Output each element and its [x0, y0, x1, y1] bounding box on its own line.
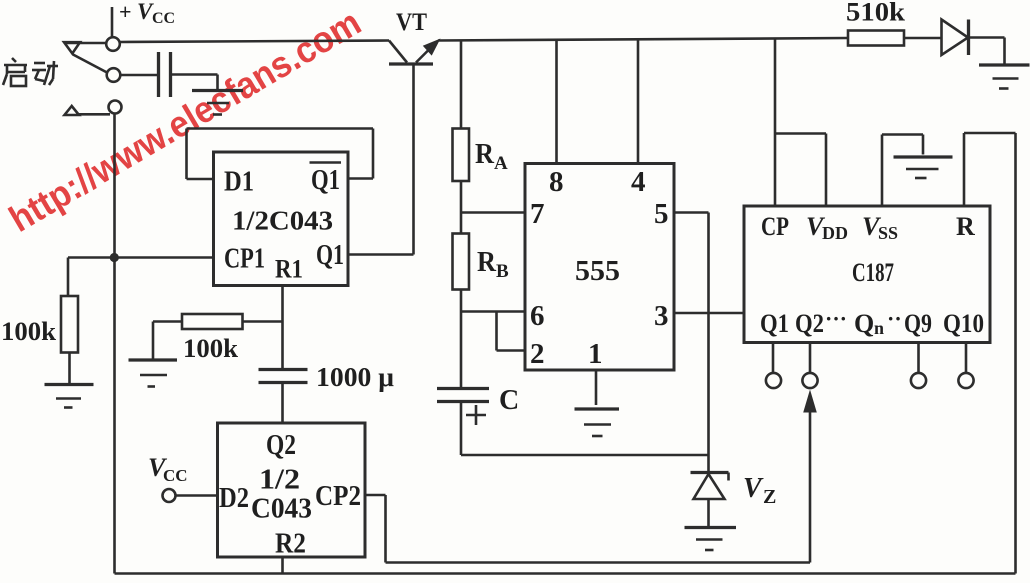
- svg-text:V: V: [743, 473, 764, 504]
- label RB: [477, 247, 509, 282]
- ground G1: [192, 91, 243, 115]
- svg-text:R: R: [956, 212, 975, 241]
- flip-flop U2 box: [218, 423, 366, 557]
- capacitor 1000u plates: [259, 370, 308, 383]
- left vertical rail: [113, 114, 116, 574]
- svg-text:+: +: [119, 0, 132, 24]
- svg-text:5: 5: [654, 198, 669, 230]
- resistor 100k left: [61, 296, 78, 353]
- U1 labels: [224, 163, 344, 284]
- svg-text:Q: Q: [854, 309, 874, 338]
- svg-text:4: 4: [631, 166, 646, 198]
- svg-text:2: 2: [530, 338, 545, 370]
- resistor RB: [453, 234, 470, 290]
- wire switch2 to capacitor: [121, 74, 158, 77]
- svg-text:Q1: Q1: [316, 240, 344, 271]
- wire reset right vertical: [1014, 133, 1017, 574]
- svg-text:CP: CP: [761, 212, 789, 241]
- switch stub and open triangle: [64, 42, 106, 53]
- svg-text:555: 555: [575, 255, 620, 287]
- ground G2: [575, 409, 620, 436]
- IC C187 box: [744, 206, 990, 343]
- svg-text:R: R: [475, 139, 495, 170]
- C187 bottom labels: [760, 306, 984, 338]
- svg-text:C187: C187: [852, 258, 894, 287]
- wire 100k to ground: [68, 353, 71, 384]
- svg-text:1/2C043: 1/2C043: [232, 206, 333, 236]
- label RA: [475, 139, 508, 174]
- switch contact 2: [107, 68, 121, 82]
- svg-text:1/2: 1/2: [259, 465, 300, 496]
- svg-text:100k: 100k: [183, 334, 239, 363]
- wire Q1 output: [348, 253, 414, 256]
- svg-text:7: 7: [530, 198, 545, 230]
- svg-text:3: 3: [654, 300, 669, 332]
- label VZ: [743, 473, 776, 508]
- C187 top labels: [761, 212, 975, 243]
- svg-text:CP1: CP1: [224, 244, 265, 275]
- wire R pin: [964, 133, 1016, 206]
- 555 pin labels: [530, 166, 669, 370]
- svg-text:Q2: Q2: [795, 309, 824, 338]
- ground G6: [45, 385, 94, 408]
- wire CP pin: [775, 38, 826, 206]
- wire pin7: [461, 211, 525, 214]
- top wire right segment: [438, 38, 848, 41]
- junction dot: [110, 253, 119, 262]
- top wire left segment: [120, 41, 389, 43]
- switch 启动 contact 1: [106, 37, 120, 51]
- svg-text:Q9: Q9: [904, 309, 932, 338]
- svg-text:C: C: [499, 385, 519, 416]
- wire VDD pin: [825, 134, 828, 207]
- svg-text:Q10: Q10: [943, 309, 984, 338]
- wire 100k-h right: [243, 320, 283, 323]
- resistor 510k: [848, 31, 904, 46]
- svg-text:100k: 100k: [1, 317, 57, 346]
- svg-text:Q1: Q1: [760, 309, 789, 338]
- switch contact 3: [109, 101, 122, 114]
- capacitor C plates: [437, 389, 489, 402]
- ground G7: [129, 360, 178, 387]
- svg-text:n: n: [874, 318, 884, 338]
- wire RA to RB: [460, 181, 463, 234]
- wire R1 down: [281, 286, 284, 369]
- svg-text:8: 8: [549, 166, 564, 198]
- svg-text:510k: 510k: [846, 0, 906, 27]
- wire pin5: [674, 213, 709, 473]
- wire capacitor to ground: [172, 75, 218, 90]
- wire pin2: [497, 312, 526, 351]
- wire CP1: [68, 256, 214, 259]
- wire C bottom: [461, 402, 709, 456]
- wire pin4: [637, 39, 640, 164]
- svg-text:DD: DD: [822, 223, 848, 243]
- svg-text:R: R: [477, 247, 497, 278]
- svg-text:SS: SS: [878, 223, 898, 243]
- resistor 100k horizontal: [182, 314, 243, 329]
- wire RB to capacitor C: [460, 290, 463, 388]
- feedback loop wire D1 to Q1bar: [187, 129, 374, 180]
- feedback arrow into Q2: [803, 390, 817, 563]
- wire VT base down to Q1: [412, 64, 415, 255]
- transistor VT: [389, 39, 441, 65]
- zener diode VZ: [691, 473, 729, 527]
- ground G3: [685, 528, 737, 551]
- bottom reset bus: [115, 572, 1016, 575]
- svg-text:Z: Z: [763, 486, 776, 508]
- wire cap to box2: [281, 383, 284, 424]
- output Q2 terminal: [802, 343, 817, 389]
- wire Vcc to D2: [176, 494, 218, 497]
- wire VSS pin to ground: [882, 135, 923, 207]
- svg-text:···: ···: [825, 306, 847, 331]
- U2 labels: [219, 430, 361, 560]
- resistor RA: [453, 129, 470, 182]
- output Q1 terminal: [766, 343, 781, 389]
- flip-flop U1 box: [214, 152, 349, 286]
- wire CP2 feedback: [365, 495, 810, 563]
- watermark: [2, 2, 367, 240]
- wire 510k to diode: [904, 37, 942, 40]
- svg-text:D1: D1: [224, 167, 254, 198]
- wire to 100k left: [67, 258, 70, 297]
- wire pin3: [674, 312, 744, 315]
- IC 555 box: [525, 164, 674, 371]
- svg-text:CC: CC: [163, 466, 188, 485]
- switch triangle 3: [65, 106, 111, 115]
- wire 100k-h left to ground: [153, 322, 182, 359]
- wire pin8: [555, 39, 558, 164]
- diode VD: [942, 20, 969, 56]
- svg-text:1000 μ: 1000 μ: [316, 362, 394, 392]
- ground G4: [894, 157, 953, 178]
- svg-text:C043: C043: [251, 494, 312, 525]
- label Vcc at D2: [148, 453, 188, 485]
- svg-text:VT: VT: [396, 9, 427, 36]
- svg-text:Q2: Q2: [266, 430, 296, 461]
- wire pin1: [595, 370, 598, 405]
- svg-text:6: 6: [530, 300, 545, 332]
- wire diode to ground: [969, 38, 1005, 64]
- svg-text:··: ··: [887, 306, 902, 331]
- svg-text:Q1: Q1: [311, 165, 340, 196]
- svg-text:R1: R1: [275, 255, 303, 284]
- label 启动: [3, 58, 58, 86]
- output Q9 terminal: [911, 343, 926, 389]
- wire R2 down: [281, 557, 284, 574]
- plus sign of C: [466, 405, 486, 425]
- capacitor C1 plates: [159, 52, 171, 97]
- svg-text:R2: R2: [275, 529, 306, 560]
- output Q10 terminal: [958, 343, 973, 389]
- ground G5: [979, 65, 1030, 89]
- svg-text:CP2: CP2: [315, 481, 361, 512]
- wire pin6: [461, 310, 525, 313]
- wire top to RA: [460, 40, 463, 129]
- svg-text:1: 1: [588, 338, 603, 370]
- terminal circle Vcc: [163, 489, 176, 502]
- svg-text:CC: CC: [152, 10, 175, 27]
- svg-text:A: A: [494, 153, 508, 174]
- switch arm: [73, 55, 107, 73]
- svg-text:D2: D2: [219, 483, 249, 514]
- svg-text:B: B: [496, 261, 509, 282]
- +Vcc supply stub: [112, 0, 175, 37]
